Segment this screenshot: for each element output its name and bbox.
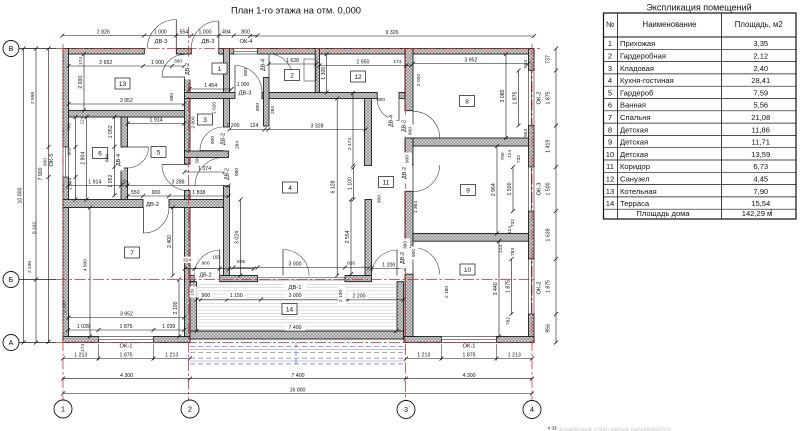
- axis2 interior wall lower: [185, 191, 191, 337]
- door DV-1 terrace sliding: [258, 278, 346, 281]
- svg-text:2 100: 2 100: [27, 261, 33, 273]
- svg-text:12: 12: [354, 74, 362, 81]
- svg-text:2 100: 2 100: [173, 301, 179, 314]
- svg-text:3 000: 3 000: [289, 262, 302, 268]
- svg-text:284: 284: [235, 141, 241, 149]
- svg-text:ОК-5: ОК-5: [49, 153, 55, 166]
- svg-text:826: 826: [347, 261, 355, 267]
- room label 13: [115, 78, 130, 89]
- svg-text:8: 8: [465, 98, 469, 105]
- svg-text:13: 13: [606, 187, 614, 196]
- svg-text:3 440: 3 440: [493, 282, 499, 295]
- svg-text:2: 2: [770, 209, 773, 215]
- blue center line: [295, 343, 297, 365]
- svg-text:4: 4: [608, 76, 612, 85]
- svg-text:956: 956: [546, 324, 552, 333]
- svg-text:284: 284: [270, 106, 276, 114]
- step edge line 1: [190, 348, 406, 350]
- svg-text:782: 782: [506, 317, 512, 325]
- svg-text:550: 550: [131, 190, 140, 196]
- door DV-2 room3 arc: [200, 127, 224, 151]
- room2 width dim: [269, 63, 317, 65]
- svg-text:ОК-1: ОК-1: [462, 344, 475, 350]
- door DV-2 room5 arc: [162, 165, 188, 191]
- door DV-2 room8 arc: [413, 111, 440, 138]
- svg-text:2 950: 2 950: [356, 60, 369, 66]
- room7 width dim: [69, 317, 185, 319]
- svg-text:1 500: 1 500: [546, 182, 552, 195]
- svg-text:2 474: 2 474: [347, 138, 353, 150]
- terrace right wall: [397, 282, 404, 339]
- hall-kitchen dim row: [230, 129, 366, 131]
- south wall left of door DV-1: [220, 276, 258, 282]
- door DV-2 room7 arc: [144, 208, 170, 234]
- room label 2: [285, 70, 300, 81]
- axis circle 3: [397, 401, 415, 419]
- svg-text:3,35: 3,35: [753, 39, 768, 48]
- svg-text:1: 1: [218, 66, 222, 73]
- svg-text:7: 7: [608, 113, 612, 122]
- terrace width dim: [197, 330, 397, 332]
- room label 7: [125, 247, 140, 258]
- svg-text:174: 174: [80, 344, 86, 352]
- room5 width dim: [128, 123, 185, 125]
- axis line Б horizontal: [56, 279, 534, 281]
- dims above room7 wall: [69, 185, 229, 187]
- top wall stub between doors: [176, 49, 191, 55]
- svg-text:1 039: 1 039: [162, 324, 175, 330]
- room label 3: [198, 114, 213, 125]
- svg-text:ДВ-3: ДВ-3: [202, 39, 215, 45]
- svg-text:174: 174: [78, 57, 84, 65]
- wall rooms1-2 and kitchen stub: [264, 77, 270, 126]
- corridor east wall between doors 9-10: [405, 191, 413, 247]
- svg-text:Спальня: Спальня: [620, 113, 651, 122]
- bottom window dims right: [406, 358, 532, 360]
- hall wall below rooms1-2 left segment: [185, 93, 236, 99]
- svg-text:1 039: 1 039: [77, 324, 90, 330]
- door DV-1 arc: [283, 250, 309, 276]
- door DV-4 rooms1-2 leaf: [268, 54, 270, 77]
- door DV-2 room7 leaf: [143, 208, 145, 234]
- dim 1100: [353, 168, 355, 200]
- svg-text:3 288: 3 288: [172, 180, 185, 186]
- axis line 3 vertical: [405, 48, 407, 401]
- bottom wall right of OK-1 room10: [497, 337, 535, 343]
- corridor east wall top segment: [405, 49, 413, 111]
- svg-text:900: 900: [67, 147, 73, 155]
- svg-text:900: 900: [201, 261, 209, 267]
- svg-text:ДВ-4: ДВ-4: [260, 59, 266, 71]
- svg-text:3: 3: [608, 64, 612, 73]
- svg-text:2 964: 2 964: [491, 183, 497, 196]
- svg-text:6: 6: [608, 101, 612, 110]
- bottom dim 16000: [63, 393, 532, 395]
- svg-text:Б: Б: [9, 275, 14, 284]
- svg-text:Санузел: Санузел: [620, 175, 650, 184]
- window OK-5 left wall: [63, 147, 69, 177]
- svg-text:ОК-1: ОК-1: [119, 344, 132, 350]
- dim 1052 pair: [114, 117, 116, 195]
- door DV-2 terrace-west arc: [194, 250, 219, 275]
- svg-text:800: 800: [241, 30, 250, 36]
- svg-text:174: 174: [393, 59, 401, 65]
- svg-text:2 998: 2 998: [30, 92, 36, 104]
- svg-text:732: 732: [510, 219, 516, 227]
- svg-text:28,41: 28,41: [751, 76, 770, 85]
- room10 window dim: [511, 259, 513, 314]
- axis circle 4: [523, 401, 541, 419]
- door DV-4 rooms1-2 arc: [269, 54, 292, 77]
- svg-text:324: 324: [183, 258, 191, 264]
- axis line 1 vertical: [62, 44, 64, 401]
- svg-text:Ванная: Ванная: [620, 101, 646, 110]
- dim 1454: [190, 88, 232, 90]
- room3 bottom wall: [185, 151, 229, 158]
- room13 width dim: [69, 103, 185, 105]
- svg-text:124: 124: [507, 150, 513, 158]
- svg-text:2 020: 2 020: [416, 74, 422, 86]
- svg-text:150: 150: [213, 255, 221, 260]
- svg-text:ДВ-4: ДВ-4: [389, 115, 395, 127]
- svg-text:980: 980: [234, 168, 240, 176]
- svg-text:1 875: 1 875: [513, 91, 519, 104]
- step edge line 2: [190, 360, 406, 362]
- svg-text:1 639: 1 639: [546, 228, 552, 241]
- svg-text:А: А: [8, 338, 13, 347]
- svg-text:900: 900: [152, 190, 161, 196]
- svg-text:11,71: 11,71: [752, 138, 770, 147]
- svg-text:Детская: Детская: [620, 125, 648, 134]
- wall kitchen-corridor upper x364: [365, 99, 372, 166]
- svg-text:783: 783: [510, 248, 516, 256]
- axis В connector: [19, 48, 56, 50]
- svg-text:1 875: 1 875: [546, 91, 552, 104]
- svg-text:4 33: 4 33: [548, 426, 557, 431]
- bottom wall right of OK-1 room7: [154, 337, 191, 343]
- svg-text:14: 14: [286, 306, 294, 313]
- door DV-4 room12 arc: [377, 99, 399, 121]
- svg-text:15,54: 15,54: [751, 199, 770, 208]
- svg-text:826: 826: [237, 259, 245, 265]
- svg-text:563: 563: [523, 60, 529, 68]
- kitchen nook height dim: [240, 200, 242, 276]
- svg-text:800: 800: [105, 154, 111, 162]
- right wall between OK-2 and OK-3: [529, 126, 535, 168]
- south wall between DV-1 and DV-2: [345, 276, 372, 282]
- svg-text:980: 980: [169, 93, 175, 101]
- axis circle Б: [3, 272, 19, 288]
- svg-text:1 914: 1 914: [150, 118, 163, 124]
- svg-text:№: №: [606, 20, 614, 29]
- svg-text:7: 7: [130, 250, 134, 257]
- top exterior wall segment axis1 to door: [63, 49, 144, 55]
- svg-text:563: 563: [523, 129, 529, 137]
- svg-text:3 024: 3 024: [235, 231, 241, 244]
- svg-text:ДВ-1: ДВ-1: [289, 285, 302, 291]
- hall wall stub right of DV-4: [399, 93, 405, 99]
- svg-text:Гардероб: Гардероб: [620, 88, 654, 97]
- svg-text:1 000: 1 000: [199, 30, 212, 36]
- svg-text:700: 700: [500, 152, 506, 160]
- svg-text:ДВ-2: ДВ-2: [225, 168, 231, 180]
- door DV-3 left leaf: [175, 20, 177, 49]
- door DV-2 room5 leaf: [162, 164, 188, 166]
- svg-text:12: 12: [606, 175, 614, 184]
- svg-text:2 000: 2 000: [191, 116, 197, 128]
- door DV-2 room8 leaf: [412, 111, 414, 138]
- terrace west door dim row: [185, 268, 254, 270]
- svg-text:2 000: 2 000: [78, 76, 84, 89]
- door DV-2 room9 arc: [413, 165, 440, 192]
- svg-text:1 150: 1 150: [230, 293, 243, 299]
- window OK-2 room10 right wall: [529, 259, 535, 314]
- svg-text:1 213: 1 213: [417, 353, 430, 359]
- top wall stub before window OK-4: [219, 49, 234, 55]
- svg-text:9: 9: [466, 187, 470, 194]
- svg-text:1 875: 1 875: [120, 324, 133, 330]
- svg-text:Детская: Детская: [620, 138, 648, 147]
- svg-text:1 875: 1 875: [506, 280, 512, 293]
- axis line В horizontal: [56, 48, 540, 50]
- vertical wall x223 lower (kitchen divider): [224, 186, 230, 276]
- svg-text:1: 1: [608, 39, 612, 48]
- svg-text:1 500: 1 500: [507, 182, 513, 195]
- window OK-4 top wall: [234, 49, 258, 55]
- left dim 7900: [35, 49, 37, 343]
- svg-text:Наименование: Наименование: [642, 20, 696, 29]
- wardrobe room2: [304, 59, 316, 81]
- axis Б connector: [19, 279, 56, 281]
- svg-text:900: 900: [377, 195, 383, 203]
- right dim column outer: [555, 49, 557, 343]
- svg-text:Гардеробная: Гардеробная: [620, 52, 666, 61]
- svg-text:800: 800: [255, 103, 261, 111]
- room13 top dims: [69, 65, 185, 67]
- svg-text:4 300: 4 300: [120, 373, 133, 379]
- door DV-3 hall arc: [235, 66, 262, 93]
- svg-text:ДВ-2: ДВ-2: [400, 252, 406, 264]
- svg-text:ДВ-4: ДВ-4: [116, 154, 122, 166]
- room label 14: [282, 304, 297, 315]
- svg-text:8: 8: [608, 125, 612, 134]
- svg-text:4: 4: [530, 405, 534, 414]
- svg-text:4 300: 4 300: [463, 373, 476, 379]
- room13 height dim: [83, 54, 85, 111]
- room9 window dim: [512, 167, 514, 211]
- svg-text:7 400: 7 400: [289, 325, 302, 331]
- svg-text:ДВ-2: ДВ-2: [402, 120, 408, 132]
- svg-text:124: 124: [80, 116, 86, 124]
- svg-text:1 020: 1 020: [212, 102, 218, 114]
- room8 window dim: [518, 71, 520, 126]
- svg-text:1 213: 1 213: [508, 353, 521, 359]
- svg-text:13: 13: [119, 81, 127, 88]
- svg-text:1 300: 1 300: [321, 67, 327, 80]
- blue dashed step lines: [190, 346, 403, 348]
- axis line 4 vertical: [531, 44, 533, 401]
- svg-text:3 952: 3 952: [120, 98, 133, 104]
- svg-text:6 102: 6 102: [32, 222, 38, 234]
- svg-text:Кладовая: Кладовая: [620, 64, 654, 73]
- room label 6: [93, 148, 108, 159]
- svg-text:7 400: 7 400: [292, 373, 305, 379]
- svg-text:124: 124: [507, 226, 513, 234]
- svg-text:ДВ-3: ДВ-3: [155, 39, 168, 45]
- svg-text:800: 800: [408, 127, 414, 135]
- svg-text:3 000: 3 000: [289, 293, 302, 299]
- svg-text:1 875: 1 875: [463, 353, 476, 359]
- svg-text:800: 800: [377, 97, 385, 103]
- svg-text:21,08: 21,08: [751, 113, 770, 122]
- axis line 2 vertical: [188, 27, 190, 401]
- svg-text:2,40: 2,40: [753, 64, 768, 73]
- svg-text:124: 124: [250, 123, 259, 129]
- svg-text:900: 900: [405, 155, 411, 163]
- svg-text:142,29 м: 142,29 м: [742, 209, 773, 218]
- svg-text:13,59: 13,59: [751, 150, 770, 159]
- corridor east wall between doors 8-9: [405, 138, 413, 165]
- svg-text:1 000: 1 000: [237, 82, 250, 88]
- room label 1: [212, 63, 227, 74]
- svg-text:Площадь, м2: Площадь, м2: [735, 20, 783, 29]
- room7 top wall left of door: [63, 200, 143, 208]
- svg-text:1 875: 1 875: [546, 280, 552, 293]
- door DV-1 leaf: [282, 250, 284, 276]
- svg-text:900: 900: [42, 158, 48, 166]
- svg-text:2: 2: [608, 52, 612, 61]
- svg-text:11: 11: [383, 179, 390, 186]
- svg-text:ОК-2: ОК-2: [537, 91, 543, 104]
- svg-text:1 364: 1 364: [413, 201, 419, 213]
- room6 height dim: [86, 117, 88, 200]
- svg-text:4: 4: [288, 185, 292, 192]
- door DV-2 room10 arc: [413, 248, 440, 275]
- svg-text:ОК-4: ОК-4: [239, 39, 253, 45]
- svg-text:554: 554: [179, 30, 188, 36]
- south wall west corner segment: [185, 276, 195, 282]
- svg-text:4 500: 4 500: [82, 259, 88, 271]
- room8 height dim: [505, 54, 507, 138]
- left dim column inner: [48, 49, 50, 342]
- door DV-4 room5 arc: [128, 147, 149, 168]
- svg-text:ДВ-2: ДВ-2: [185, 63, 191, 75]
- svg-text:ОК-2: ОК-2: [537, 281, 543, 294]
- svg-text:14: 14: [606, 199, 614, 208]
- svg-text:2 554: 2 554: [345, 230, 351, 243]
- svg-text:11,86: 11,86: [752, 125, 770, 134]
- svg-text:1 875: 1 875: [120, 353, 133, 359]
- svg-text:737: 737: [546, 55, 552, 64]
- svg-text:Детская: Детская: [620, 150, 648, 159]
- svg-text:2 200: 2 200: [353, 294, 366, 300]
- room7 window dims: [68, 329, 184, 331]
- door DV-2 terrace-west leaf: [219, 250, 221, 276]
- room label 12: [351, 71, 366, 82]
- svg-text:7,90: 7,90: [753, 187, 768, 196]
- svg-text:900: 900: [210, 136, 216, 144]
- room label 10: [460, 264, 475, 275]
- svg-text:1 914: 1 914: [88, 180, 101, 186]
- svg-text:6,73: 6,73: [753, 162, 768, 171]
- right exterior wall top: [529, 49, 535, 71]
- svg-text:Экспликация помещений: Экспликация помещений: [646, 3, 751, 13]
- right exterior wall bottom: [529, 314, 535, 343]
- svg-text:5: 5: [608, 88, 612, 97]
- bottom wall left of OK-1 room7: [63, 337, 99, 343]
- svg-text:3 328: 3 328: [311, 124, 324, 130]
- wall rooms6-5 upper: [121, 117, 128, 147]
- corridor east wall bottom segment: [405, 274, 413, 336]
- svg-text:2 652: 2 652: [99, 60, 112, 66]
- svg-text:6: 6: [98, 150, 102, 157]
- svg-text:ДВ-2: ДВ-2: [402, 167, 408, 179]
- wall rooms6-5 lower: [121, 168, 128, 208]
- svg-text:ДВ-2: ДВ-2: [221, 133, 227, 145]
- bottom wall left of OK-1 room10: [404, 337, 442, 343]
- door DV-2 room3 leaf: [200, 150, 224, 152]
- room10 height dim: [498, 241, 500, 336]
- svg-text:300: 300: [195, 156, 200, 164]
- room6 left dim line: [75, 117, 77, 200]
- door DV-1 dim row: [233, 267, 369, 269]
- wall kitchen-corridor x365: [365, 200, 372, 276]
- window OK-1 room7 bottom wall: [99, 337, 154, 343]
- room label 4: [283, 182, 298, 193]
- svg-text:9 326: 9 326: [386, 30, 399, 36]
- svg-text:Котельная: Котельная: [620, 187, 657, 196]
- svg-text:1 213: 1 213: [74, 353, 87, 359]
- bottom window dims left: [63, 358, 190, 360]
- svg-text:5,56: 5,56: [753, 101, 768, 110]
- svg-text:1 200: 1 200: [227, 123, 240, 129]
- svg-text:1 213: 1 213: [165, 353, 178, 359]
- bottom dim row 4300-7400-4300: [63, 378, 532, 380]
- svg-text:1 454: 1 454: [204, 83, 217, 89]
- dim 1374: [185, 171, 225, 173]
- room schedule table frame: [604, 13, 797, 219]
- door DV-2 room9 leaf: [412, 165, 414, 192]
- door DV-2 nook arc: [195, 158, 224, 187]
- svg-text:2,12: 2,12: [753, 52, 768, 61]
- left exterior wall upper: [63, 49, 69, 148]
- svg-text:4,45: 4,45: [753, 175, 768, 184]
- svg-text:2 904: 2 904: [81, 152, 87, 165]
- wall rooms8-9: [413, 138, 529, 146]
- axis А connector: [19, 342, 56, 344]
- svg-text:2: 2: [188, 405, 192, 414]
- room12 width dim: [320, 65, 412, 67]
- door DV-4 room12 leaf: [398, 99, 400, 121]
- terrace left wall: [190, 282, 197, 339]
- svg-text:ДВ-2: ДВ-2: [146, 202, 159, 208]
- svg-text:Терраса: Терраса: [620, 199, 650, 208]
- svg-text:ДВ-3: ДВ-3: [239, 91, 252, 97]
- door DV-3 hall leaf: [234, 66, 236, 93]
- dim 2100 room7: [178, 280, 180, 337]
- svg-text:7 900: 7 900: [38, 167, 44, 180]
- svg-text:Коридор: Коридор: [620, 162, 650, 171]
- svg-text:9: 9: [608, 138, 612, 147]
- dim 2400 room7: [172, 208, 174, 276]
- top exterior wall right of window OK-4: [258, 49, 535, 55]
- svg-text:2 100: 2 100: [338, 290, 344, 302]
- room label 9: [461, 185, 476, 196]
- window OK-2 room8 right wall: [529, 71, 535, 126]
- svg-text:1 838: 1 838: [192, 190, 205, 196]
- svg-text:300: 300: [174, 59, 182, 65]
- room7 top wall right of door: [169, 200, 229, 208]
